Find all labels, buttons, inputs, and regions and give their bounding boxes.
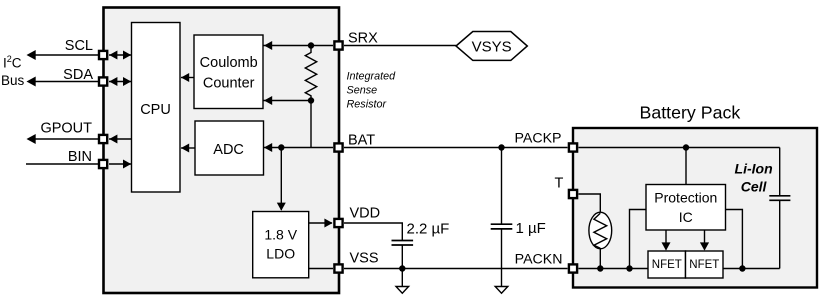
thermistor body bbox=[589, 212, 612, 249]
wire SCL external bbox=[33, 54, 98, 56]
wire SCL internal bbox=[109, 54, 132, 56]
pin BIN bbox=[99, 160, 107, 168]
li-ion cell plates bbox=[769, 195, 790, 197]
wire BAT to PACKP bbox=[344, 147, 568, 149]
coulomb counter block bbox=[194, 35, 263, 109]
svg-text:Bus: Bus bbox=[1, 73, 25, 88]
arrow protection IC to NFET Q2 gate bbox=[704, 230, 706, 250]
wire VDD to 2.2uF bbox=[344, 223, 402, 240]
wire protection IC left sense bbox=[630, 210, 647, 269]
junction dot VSS / 2.2uF bbox=[399, 265, 405, 271]
arrow into coulomb counter bottom input bbox=[264, 96, 272, 105]
svg-text:Coulomb: Coulomb bbox=[200, 55, 258, 71]
arrow into ADC input bbox=[264, 143, 272, 152]
arrow SDA internal right bbox=[123, 77, 131, 86]
arrow SCL internal left bbox=[109, 51, 117, 60]
svg-text:Resistor: Resistor bbox=[347, 98, 387, 110]
wire 1uF through VSS rail to ground bbox=[501, 229, 503, 286]
NFET Q2 block bbox=[686, 251, 724, 278]
wire 2.2uF to VSS rail and ground bbox=[401, 245, 403, 286]
svg-text:VSS: VSS bbox=[350, 251, 379, 267]
arrow into VDD pin bbox=[324, 219, 332, 228]
svg-text:PACKP: PACKP bbox=[514, 131, 561, 147]
svg-text:LDO: LDO bbox=[266, 246, 295, 262]
junction dot PACKP / protection IC bbox=[683, 144, 689, 150]
wire BIN internal bbox=[109, 163, 132, 165]
wire LDO to VSS pin bbox=[309, 268, 333, 270]
wire protection IC right sense bbox=[726, 210, 743, 269]
svg-text:Battery Pack: Battery Pack bbox=[639, 103, 740, 123]
arrow SDA internal left bbox=[109, 77, 117, 86]
pin VDD bbox=[334, 219, 342, 227]
svg-text:BIN: BIN bbox=[68, 149, 92, 165]
svg-text:1.8 V: 1.8 V bbox=[264, 227, 297, 243]
svg-text:GPOUT: GPOUT bbox=[40, 121, 92, 137]
pin T bbox=[569, 190, 577, 198]
svg-text:2.2 µF: 2.2 µF bbox=[407, 221, 450, 238]
wire li-ion cell bottom bbox=[779, 200, 781, 268]
arrow SCL internal right bbox=[123, 51, 131, 60]
arrow SCL external left bbox=[27, 50, 36, 60]
svg-text:T: T bbox=[555, 176, 564, 192]
wire sense resistor bottom to BAT rail bbox=[310, 101, 312, 148]
wire GPOUT internal bbox=[109, 138, 132, 140]
wire coulomb counter to CPU bbox=[181, 77, 194, 79]
svg-text:Counter: Counter bbox=[203, 76, 255, 92]
ground symbol below 1uF bbox=[495, 287, 508, 294]
pin BAT bbox=[334, 143, 342, 151]
arrow BIN internal right bbox=[123, 160, 131, 169]
ground symbol below 2.2uF bbox=[396, 287, 409, 294]
wire thermistor to PACKN rail bbox=[599, 248, 601, 269]
svg-text:CPU: CPU bbox=[140, 102, 171, 118]
pin VSS bbox=[334, 264, 342, 272]
arrow into LDO top bbox=[277, 203, 286, 211]
svg-text:IC: IC bbox=[679, 209, 693, 225]
junction dot sense resistor top bbox=[308, 42, 314, 48]
sense resistor zigzag bbox=[305, 46, 316, 101]
pin SCL bbox=[99, 51, 107, 59]
svg-text:1 µF: 1 µF bbox=[516, 220, 546, 237]
svg-text:Cell: Cell bbox=[741, 179, 768, 195]
wire GPOUT external bbox=[33, 138, 98, 140]
wire BAT junction to 1uF bbox=[501, 148, 503, 225]
wire PACKP junction down to protection IC bbox=[685, 148, 687, 185]
arrow into CPU from coulomb counter bbox=[181, 73, 189, 82]
svg-text:Protection: Protection bbox=[654, 190, 717, 206]
LDO block bbox=[253, 212, 309, 278]
junction dot left sense / PACKN bbox=[626, 265, 632, 271]
wire BAT internal rail bbox=[264, 147, 333, 149]
svg-text:VDD: VDD bbox=[350, 206, 381, 222]
thermistor zigzag bbox=[594, 213, 607, 248]
junction dot thermistor / PACKN bbox=[597, 265, 603, 271]
NFET Q1 block bbox=[648, 251, 686, 278]
arrow into coulomb counter top input bbox=[264, 41, 272, 50]
wire ADC to CPU bbox=[181, 147, 195, 149]
wire PACKP rail inside battery pack bbox=[579, 147, 780, 149]
arrow protection IC to NFET Q1 gate bbox=[665, 230, 667, 250]
pin SDA bbox=[99, 77, 107, 85]
svg-text:PACKN: PACKN bbox=[515, 252, 563, 268]
VSYS flag hexagon bbox=[456, 32, 527, 61]
svg-text:BAT: BAT bbox=[348, 133, 375, 149]
arrow GPOUT external left bbox=[27, 134, 36, 144]
wire VSS to PACKN bbox=[344, 268, 568, 270]
svg-text:Integrated: Integrated bbox=[347, 71, 397, 83]
wire T pin to thermistor bbox=[579, 194, 601, 213]
svg-text:Li-Ion: Li-Ion bbox=[735, 160, 773, 176]
junction dot sense resistor bottom bbox=[308, 97, 314, 103]
arrow SDA external left bbox=[27, 77, 36, 87]
capacitor C2 1uF plates bbox=[491, 223, 513, 225]
ADC block bbox=[195, 121, 264, 175]
wire li-ion cell top bbox=[779, 148, 781, 196]
wire BAT junction down to LDO bbox=[280, 148, 282, 211]
svg-text:SDA: SDA bbox=[63, 67, 93, 83]
svg-text:Sense: Sense bbox=[347, 84, 378, 96]
arrow GPOUT internal left bbox=[109, 135, 117, 144]
arrow into CPU from ADC bbox=[181, 144, 189, 153]
protection IC block bbox=[646, 185, 726, 231]
pin PACKN bbox=[569, 264, 577, 272]
wire BIN external bbox=[26, 163, 98, 165]
wire LDO to VDD pin bbox=[309, 222, 332, 224]
capacitor C1 2.2uF plates bbox=[392, 240, 414, 242]
wire sense resistor bottom to coulomb counter bbox=[264, 100, 312, 102]
wire SDA internal bbox=[109, 81, 132, 83]
svg-text:ADC: ADC bbox=[213, 142, 244, 158]
CPU block bbox=[132, 23, 181, 193]
svg-text:SRX: SRX bbox=[348, 31, 378, 47]
pin SRX bbox=[334, 41, 342, 49]
junction dot BAT / 1uF bbox=[498, 144, 504, 150]
battery pack enclosure bbox=[573, 128, 817, 288]
junction dot right sense / PACKN bbox=[739, 265, 745, 271]
wire SRX to VSYS bbox=[344, 45, 456, 47]
fuel gauge IC U1 body bbox=[104, 8, 340, 294]
svg-text:VSYS: VSYS bbox=[472, 39, 512, 56]
pin PACKP bbox=[569, 143, 577, 151]
junction dot BAT to LDO bbox=[278, 144, 284, 150]
wire PACKN rail inside battery pack bbox=[579, 268, 780, 270]
svg-text:SCL: SCL bbox=[65, 38, 93, 54]
wire SRX internal to sense resistor top bbox=[264, 45, 334, 47]
pin GPOUT bbox=[99, 135, 107, 143]
svg-text:NFET: NFET bbox=[689, 259, 719, 271]
svg-text:I2C: I2C bbox=[3, 54, 22, 71]
wire SDA external bbox=[33, 81, 98, 83]
svg-text:NFET: NFET bbox=[652, 259, 682, 271]
